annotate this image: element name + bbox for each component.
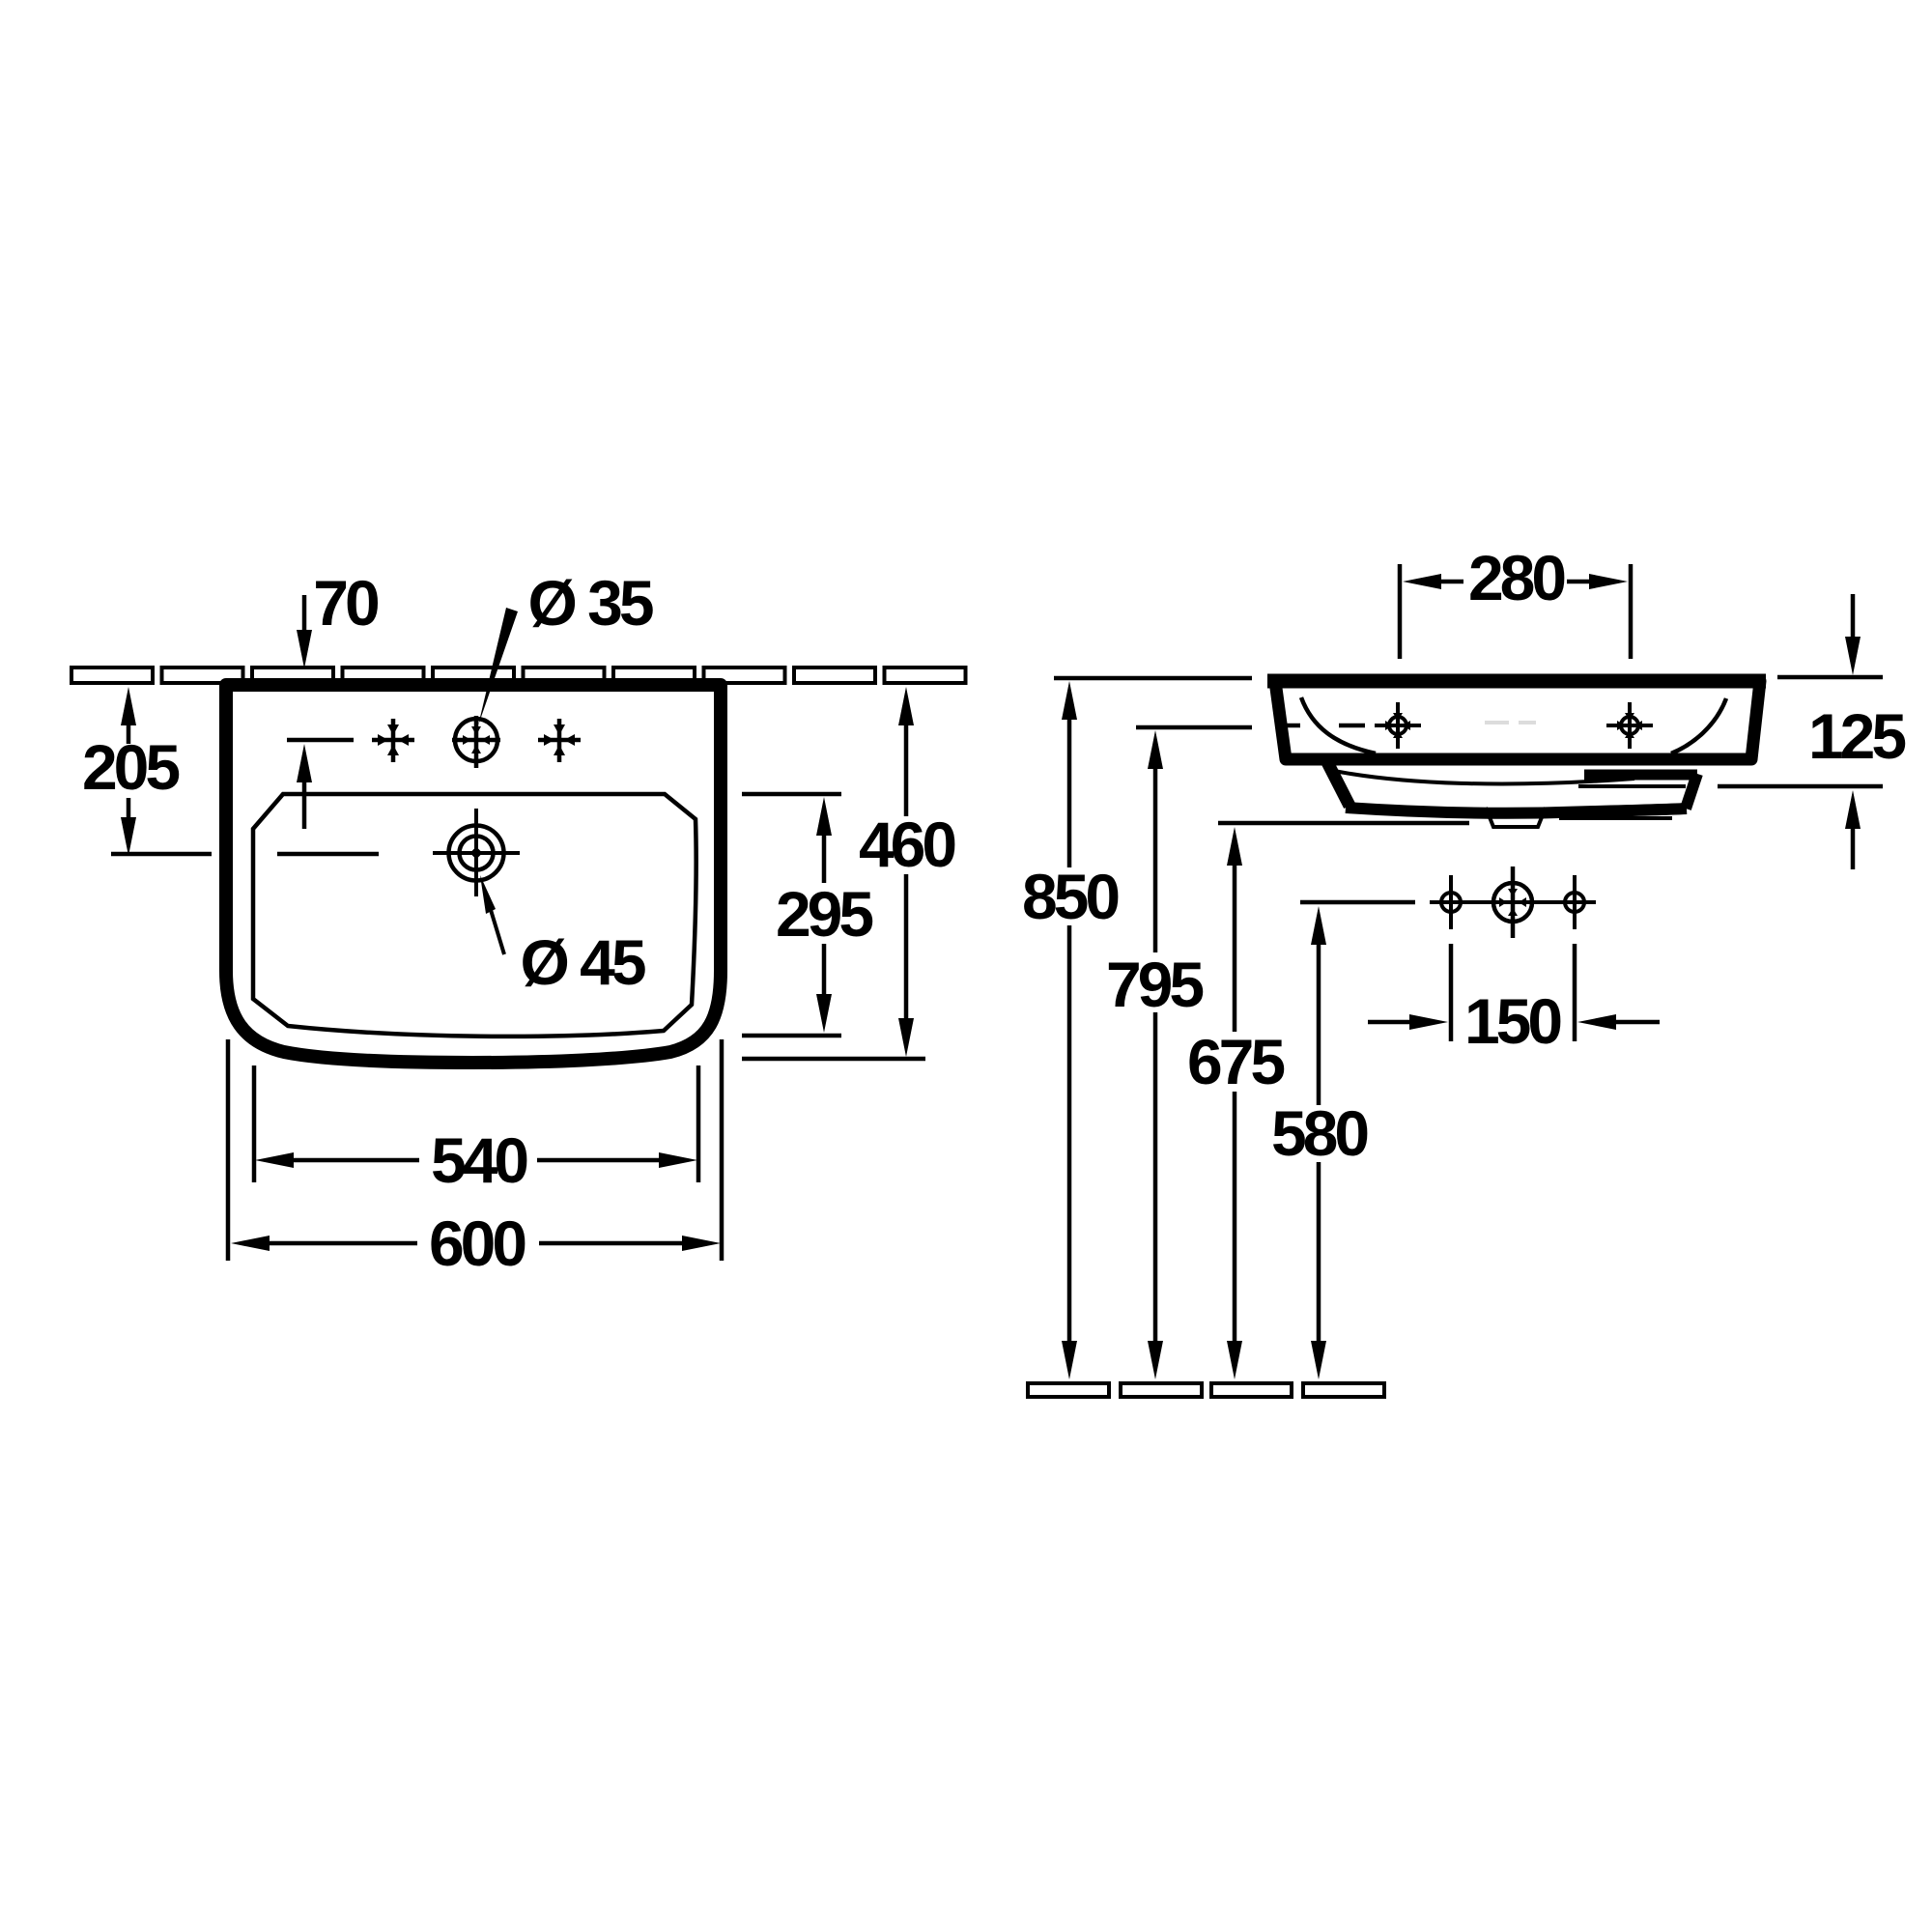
dimension 295 (vertical): [742, 794, 872, 1036]
leader line for O35: [478, 608, 518, 725]
svg-text:150: 150: [1464, 985, 1560, 1057]
wall tile row behind basin (plan view): [71, 668, 966, 683]
right fixing cross mark: [538, 719, 581, 762]
dimension 280: [1400, 542, 1631, 659]
inner bowl outline (plan): [253, 794, 696, 1037]
bowl underside right slant: [1686, 774, 1697, 809]
bowl underside left slant: [1327, 762, 1350, 806]
drain stub outline: [1486, 808, 1546, 827]
dimension 70 down arrow: [302, 595, 307, 634]
leader arrow for O45: [480, 875, 496, 914]
svg-text:460: 460: [859, 809, 954, 880]
dimension 850 (vertical): [1022, 678, 1252, 1379]
rim top slab edge: [1267, 674, 1766, 689]
svg-text:600: 600: [429, 1207, 525, 1279]
svg-text:850: 850: [1022, 861, 1118, 932]
bowl underside bottom: [1346, 808, 1687, 813]
underside thin back edge: [1578, 784, 1686, 788]
dimension 150: [1368, 944, 1660, 1057]
dimension 125: [1718, 594, 1905, 869]
bowl interior curve right: [1671, 698, 1726, 753]
svg-text:205: 205: [82, 731, 179, 803]
wall hole marks (side view): [1430, 867, 1596, 938]
dimension 795 (vertical): [1106, 727, 1252, 1379]
dimension 205 (vertical, left): [82, 687, 179, 856]
svg-text:Ø 35: Ø 35: [527, 567, 652, 639]
basin outer rim outline (plan): [226, 685, 721, 1063]
basin rim body (side view): [1275, 681, 1760, 759]
dimension 600 (horizontal): [228, 1039, 722, 1279]
svg-text:280: 280: [1468, 542, 1564, 613]
svg-text:70: 70: [313, 567, 378, 639]
svg-text:295: 295: [776, 878, 872, 950]
svg-text:580: 580: [1271, 1097, 1367, 1169]
left fixing cross (side view): [1375, 702, 1421, 749]
left fixing cross mark: [372, 719, 414, 762]
bowl interior curve left: [1301, 697, 1376, 753]
dimension 675 (vertical): [1187, 823, 1469, 1379]
underside thin front curve: [1329, 770, 1634, 784]
dimension 580 (vertical): [1271, 902, 1415, 1379]
tap hole O35 (circle with target cross): [452, 716, 500, 768]
tap hole centerline extension (left): [287, 738, 354, 743]
svg-text:795: 795: [1106, 949, 1203, 1020]
underside small edge right of drain stub: [1559, 816, 1672, 820]
dimension 540 (horizontal): [254, 1065, 698, 1196]
floor tile row (side view): [1028, 1383, 1384, 1397]
svg-text:125: 125: [1808, 700, 1905, 772]
dimension 460 (vertical, right of basin): [742, 687, 954, 1059]
right fixing cross (side view): [1606, 702, 1653, 749]
svg-text:540: 540: [431, 1124, 526, 1196]
svg-text:675: 675: [1187, 1026, 1284, 1097]
hidden centerline dashes: [1286, 724, 1300, 728]
drain centerline extensions (left): [111, 852, 212, 857]
underside right ledge: [1584, 770, 1697, 781]
svg-text:Ø 45: Ø 45: [520, 926, 644, 998]
dimension 70 up arrow (inside basin): [302, 781, 307, 829]
drain hole O45 (two rings + cross): [433, 809, 520, 896]
